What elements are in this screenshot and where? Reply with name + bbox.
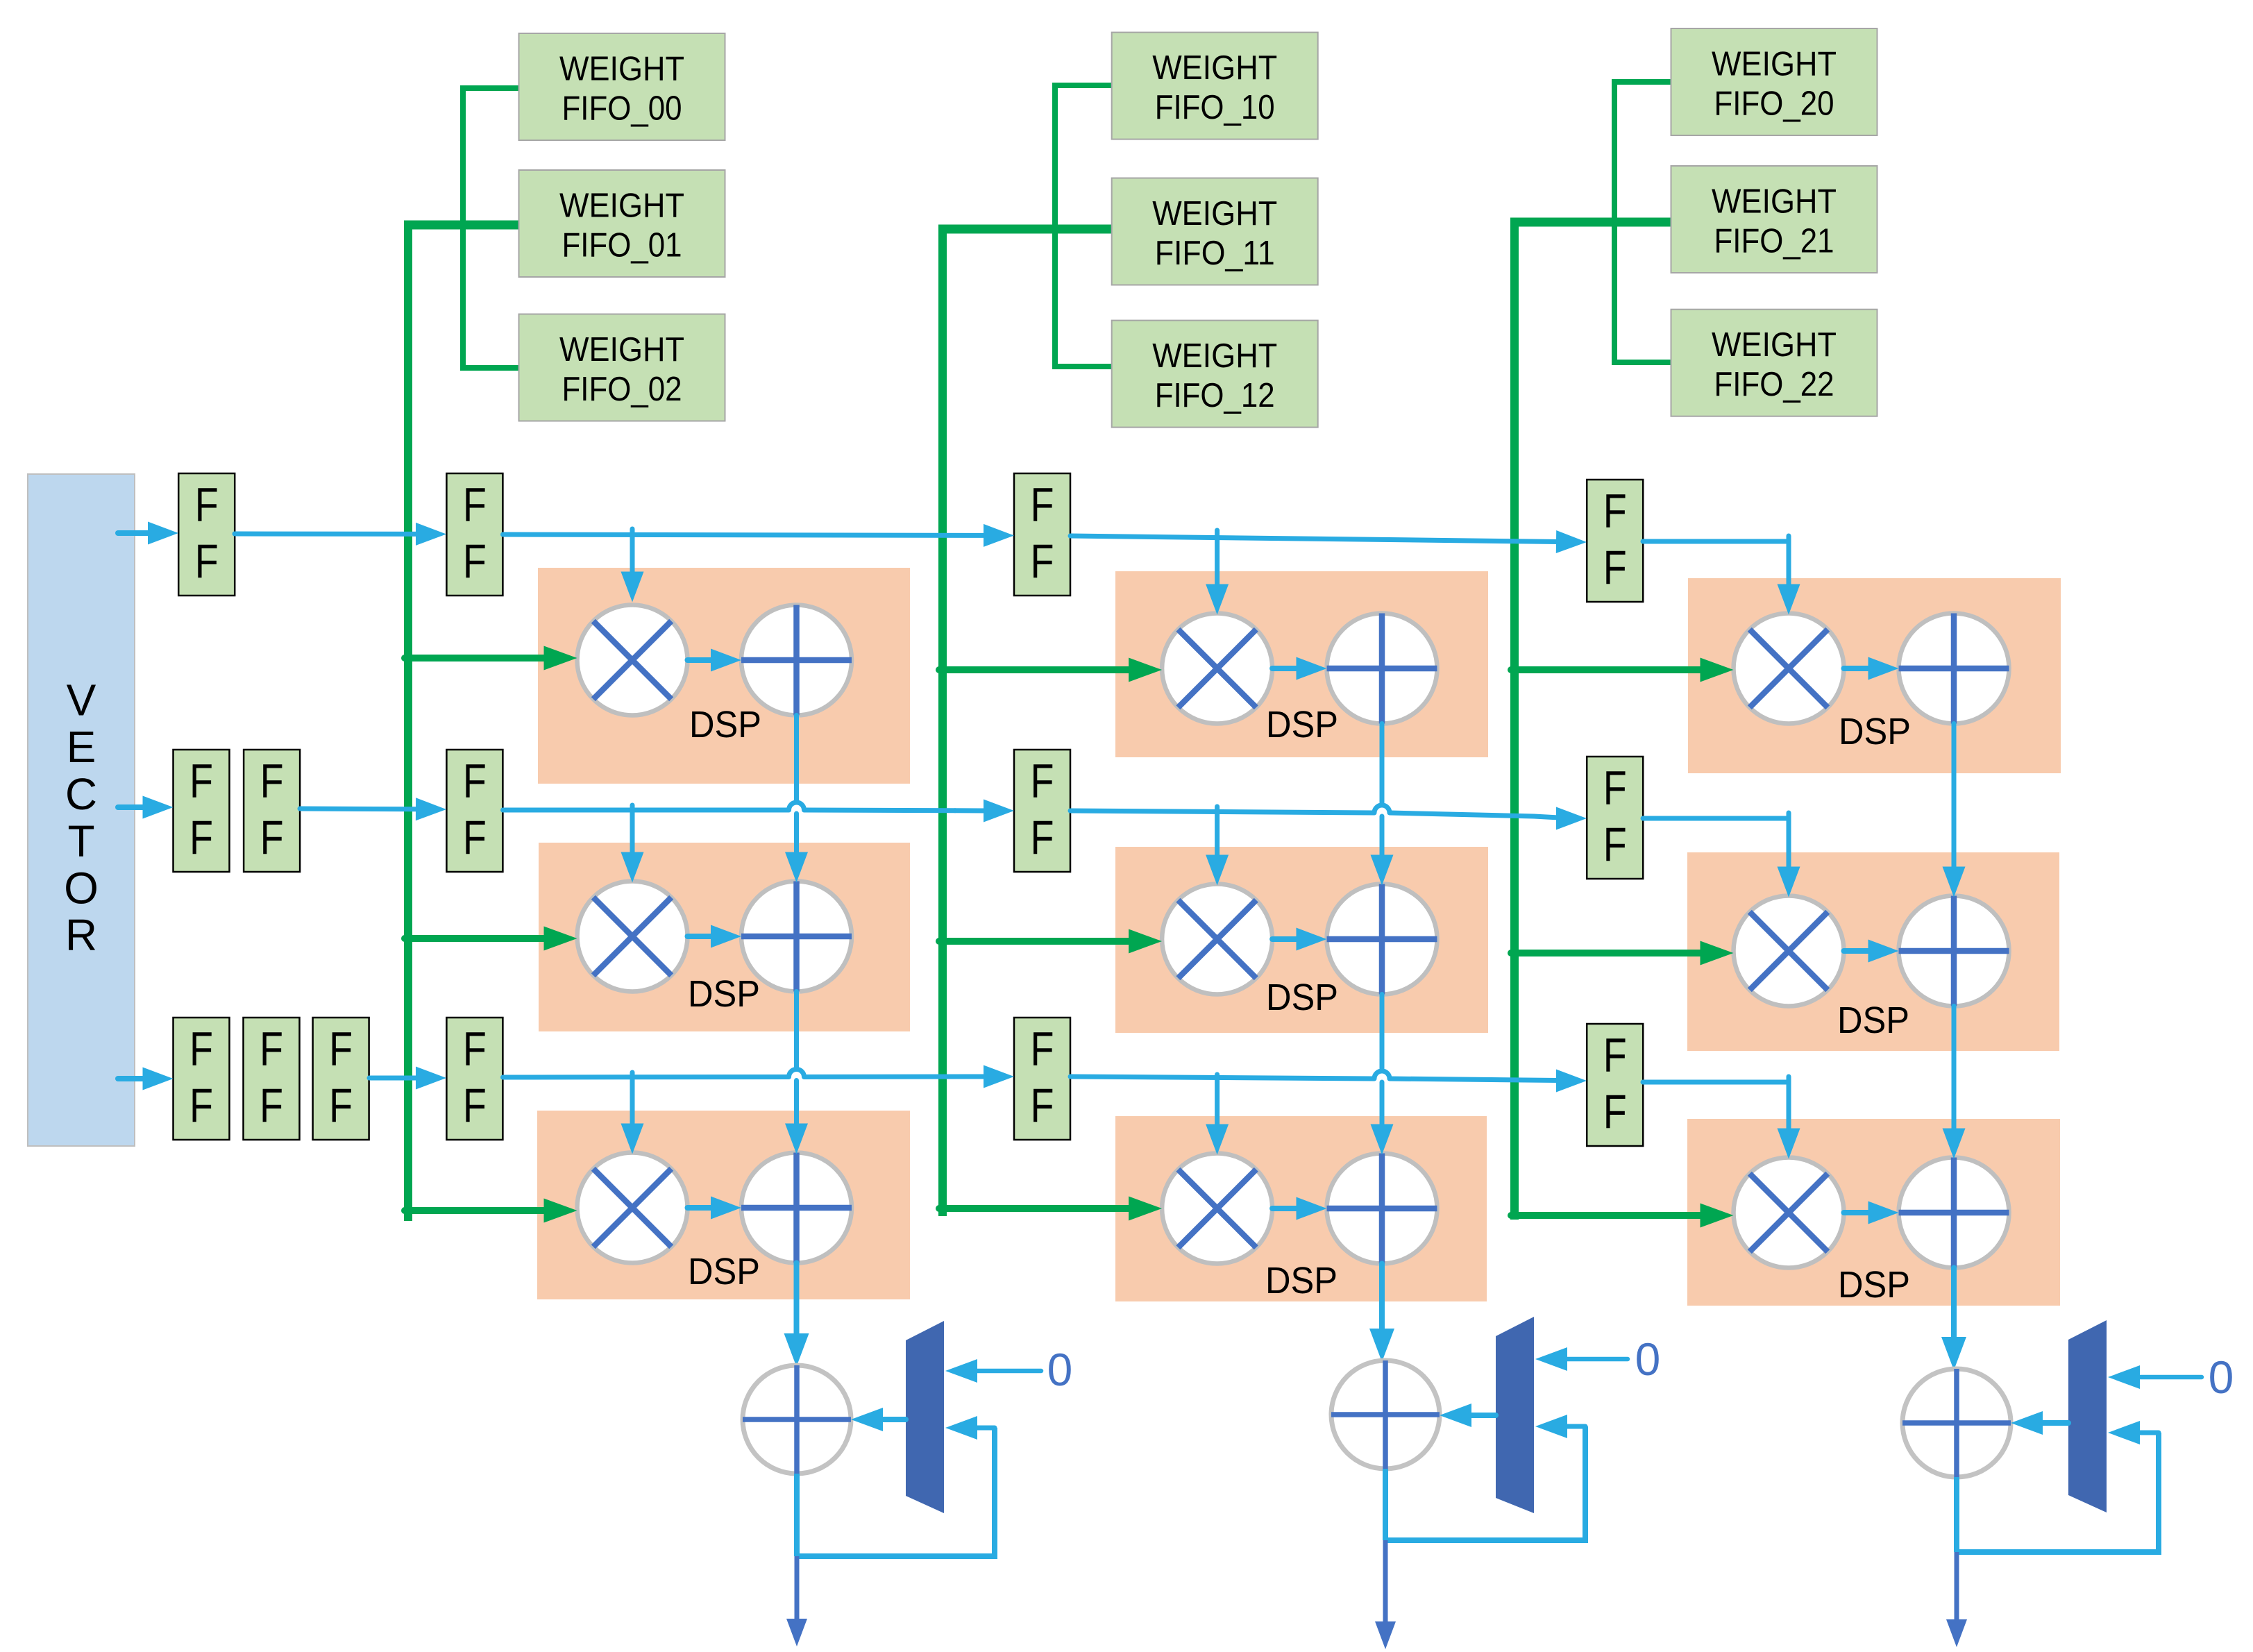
wire: stub to WEIGHT FIFO_22 [1612,360,1674,365]
wire: row3 bus column2 FF to column3 FF (hop at col2 adder chain) [1070,1077,1374,1079]
wire: result output arrow col2 [1383,1540,1388,1624]
wire: accumulator output down col2 [1383,1469,1388,1540]
svg-text:DSP: DSP [1837,1000,1909,1041]
wire: weight trunk 0 vertical [404,221,412,1221]
wire: weight trunk 2 vertical [1510,218,1519,1220]
wire: adder chain row1 to row2 col1 [794,716,799,802]
multiplier circle row2 col1 [577,882,688,992]
svg-text:WEIGHT: WEIGHT [1152,195,1277,233]
multiplier circle row2 col2 [1162,884,1272,995]
svg-text:T: T [67,816,94,866]
flip-flop FF row3 column2 [1014,1018,1070,1140]
wire: stub to WEIGHT FIFO_00 [460,85,522,91]
flip-flop FF row3 column3 [1587,1024,1643,1146]
wire: multiplier to adder arrow row2 col2 [1272,936,1299,942]
WEIGHT FIFO_22 box [1671,310,1877,416]
adder circle row1 col2 [1327,614,1437,724]
svg-text:DSP: DSP [1266,977,1338,1018]
wire: weight arrow trunk2 to multiplier row1 [939,666,1131,673]
svg-text:WEIGHT: WEIGHT [1152,49,1277,87]
svg-text:DSP: DSP [1839,711,1911,752]
wire: feedback loop col1 [797,1428,995,1556]
adder circle row3 col2 [1327,1154,1437,1264]
svg-text:F: F [260,811,284,864]
svg-text:F: F [329,1022,353,1076]
wire: multiplier to adder arrow row3 col3 [1844,1210,1871,1215]
DSP block row3 col1 [537,1111,910,1299]
WEIGHT FIFO_11 box [1112,178,1318,285]
svg-text:F: F [463,1079,487,1132]
svg-text:F: F [1603,484,1627,538]
svg-text:F: F [195,534,219,588]
svg-text:F: F [189,1022,213,1076]
svg-text:R: R [65,910,97,960]
svg-text:WEIGHT: WEIGHT [1712,326,1837,364]
svg-text:O: O [64,863,99,913]
svg-text:WEIGHT: WEIGHT [559,187,684,225]
wire: weight arrow trunk3 to multiplier row3 [1511,1212,1703,1219]
wire: zero input arrow into mux col3 [2137,1375,2202,1380]
svg-text:V: V [67,675,96,725]
flip-flop FF row2 column1 [446,750,503,872]
wire: FF row3 stage3 to column1 FF [369,1076,419,1081]
svg-text:F: F [1031,1022,1054,1076]
flip-flop FF row1 column1 [446,473,503,596]
DSP block row1 col3 [1688,578,2061,773]
multiplier circle row1 col1 [577,605,688,716]
adder circle row1 col3 [1899,614,2009,724]
svg-text:F: F [260,1022,283,1076]
DSP block row2 col1 [539,843,910,1031]
flip-flop FF row1 stage1 [178,473,235,596]
adder circle row2 col2 [1327,884,1437,995]
wire: row3 column3 FF elbow into multiplier col3 [1787,1077,1791,1084]
svg-text:DSP: DSP [689,704,761,745]
wire: row3 bus column1 FF to column2 FF (hop at col1 adder chain) [503,1074,789,1080]
wire: row2 bus column2 FF to column3 FF (hop at col2 adder chain) [1070,811,1374,813]
wire: accumulator output down col1 [794,1474,800,1556]
svg-text:WEIGHT: WEIGHT [1152,337,1277,375]
svg-text:WEIGHT: WEIGHT [559,51,684,88]
wire: multiplier to adder arrow row2 col3 [1844,948,1871,954]
wire: stub to WEIGHT FIFO_10 [1052,83,1115,88]
wire: feedback loop col2 [1385,1426,1585,1540]
flip-flop FF row2 column2 [1014,750,1070,872]
multiplexer mux col3 [2068,1320,2107,1512]
accumulator adder circle col3 [1902,1369,2011,1477]
multiplier circle row2 col3 [1734,896,1844,1006]
wire: multiplier to adder arrow row1 col2 [1272,666,1299,671]
svg-text:E: E [67,722,96,772]
WEIGHT FIFO_02 box [519,314,725,421]
wire: weight column 2 branch vertical [1612,82,1617,362]
svg-text:F: F [463,811,487,864]
flip-flop FF row1 column3 [1587,480,1643,602]
VECTOR input block [28,474,135,1146]
wire: mux output arrow into accumulator col3 [2040,1420,2068,1426]
svg-text:FIFO_12: FIFO_12 [1155,377,1275,414]
adder circle row2 col3 [1899,896,2009,1006]
wire: weight arrow trunk1 to multiplier row3 [405,1207,547,1214]
svg-text:F: F [189,811,213,864]
wire: weight column 1 branch vertical [1052,85,1058,366]
wire: row1 bus column2 FF to column3 FF [1070,536,1559,542]
svg-text:FIFO_01: FIFO_01 [562,227,682,264]
wire: row3 drop into multiplier col1 [630,1072,635,1123]
wire: adder chain row1 to row2 col3 [1952,724,1957,868]
svg-text:F: F [1031,755,1054,808]
wire: row2 column3 FF elbow into multiplier col3 [1787,813,1791,820]
wire: row2 drop into multiplier col2 [1215,807,1220,859]
accumulator adder circle col2 [1331,1360,1440,1469]
wire: FF row1 stage1 to column1 FF [235,532,419,537]
wire: DSP row3 adder to accumulator col1 [794,1263,800,1337]
wire: row1 drop into multiplier col2 [1215,530,1220,587]
multiplier circle row1 col3 [1734,614,1844,724]
wire: weight arrow trunk2 to multiplier row3 [939,1205,1131,1212]
wire: adder chain row1 to row2 col2 [1380,724,1385,805]
multiplexer mux col1 [906,1321,944,1513]
wire: zero input arrow into mux col2 [1564,1357,1628,1362]
DSP block row2 col3 [1687,852,2059,1051]
svg-text:F: F [463,755,487,808]
svg-text:DSP: DSP [688,1251,760,1292]
adder circle row2 col1 [741,882,852,992]
wire: VECTOR to FF row1 arrow [118,530,151,536]
svg-text:FIFO_02: FIFO_02 [562,371,682,408]
wire: multiplier to adder arrow row1 col1 [688,657,714,663]
svg-text:WEIGHT: WEIGHT [1712,183,1837,221]
wire: feedback loop col3 [1957,1433,2159,1552]
wire: multiplier to adder arrow row1 col3 [1844,666,1871,671]
flip-flop FF row3 stage1 [174,1018,230,1140]
wire: stub to WEIGHT FIFO_02 [460,365,522,371]
wire: adder chain row2 to row3 col2 [1380,995,1385,1071]
flip-flop FF row2 column3 [1587,757,1643,879]
WEIGHT FIFO_01 box [519,170,725,277]
wire: multiplier to adder arrow row3 col2 [1272,1206,1299,1211]
wire: mux output arrow into accumulator col1 [880,1417,906,1422]
DSP block row3 col2 [1115,1116,1487,1301]
wire: result output arrow col3 [1955,1552,1959,1622]
wire: row3 drop into multiplier col2 [1215,1074,1220,1124]
wire: DSP row3 adder to accumulator col3 [1951,1268,1957,1340]
wire: weight arrow trunk3 to multiplier row2 [1511,950,1703,956]
svg-text:DSP: DSP [1838,1264,1910,1306]
adder circle row3 col3 [1899,1158,2009,1268]
DSP block row1 col2 [1115,571,1488,757]
wire: FF row2 stage2 to column1 FF [300,807,419,812]
svg-text:0: 0 [1635,1333,1661,1385]
svg-text:DSP: DSP [688,973,760,1015]
multiplier circle row3 col3 [1734,1158,1844,1268]
accumulator adder circle col1 [743,1365,851,1474]
svg-text:F: F [260,1079,283,1132]
svg-text:F: F [463,1022,487,1076]
wire: adder chain row2 to row3 col3 [1952,1006,1957,1130]
DSP block row3 col3 [1687,1119,2060,1306]
wire: VECTOR to FF row3 arrow [118,1076,146,1081]
svg-text:F: F [1031,478,1054,532]
WEIGHT FIFO_21 box [1671,166,1877,273]
svg-text:F: F [1603,761,1627,815]
wire: weight column 0 branch vertical [460,88,466,368]
wire: adder chain row2 to row3 col1 [794,992,799,1070]
wire: stub to WEIGHT FIFO_20 [1612,79,1674,85]
DSP block row1 col1 [538,568,910,784]
wire: multiplier to adder arrow row3 col1 [688,1205,714,1211]
flip-flop FF row3 stage3 [313,1018,369,1140]
wire: weight arrow trunk1 to multiplier row1 [405,655,547,661]
svg-text:F: F [195,478,219,532]
svg-text:F: F [1603,1085,1627,1138]
adder circle row3 col1 [741,1153,852,1263]
WEIGHT FIFO_00 box [519,33,725,140]
svg-text:F: F [1031,1079,1054,1132]
flip-flop FF row2 stage1 [174,750,230,872]
adder circle row1 col1 [741,605,852,716]
svg-text:DSP: DSP [1265,1260,1338,1301]
svg-text:F: F [329,1079,353,1132]
wire: weight arrow trunk2 to multiplier row2 [939,938,1131,945]
flip-flop FF row3 column1 [446,1018,503,1140]
wire: zero input arrow into mux col1 [974,1369,1041,1374]
wire: accumulator output down col3 [1954,1477,1959,1552]
svg-text:F: F [463,478,487,532]
WEIGHT FIFO_20 box [1671,28,1877,135]
svg-text:FIFO_22: FIFO_22 [1714,366,1834,403]
wire: result output arrow col1 [795,1556,800,1621]
wire: VECTOR to FF row2 arrow [118,804,146,810]
svg-text:C: C [65,769,97,819]
svg-text:WEIGHT: WEIGHT [1712,46,1837,83]
flip-flop FF row3 stage2 [244,1018,300,1140]
svg-text:F: F [1031,534,1054,588]
svg-text:F: F [260,755,284,808]
WEIGHT FIFO_10 box [1112,33,1318,140]
wire: weight arrow trunk3 to multiplier row1 [1511,666,1703,673]
svg-text:0: 0 [2209,1351,2234,1403]
svg-text:FIFO_20: FIFO_20 [1714,85,1834,123]
wire: trunk 0 elbow to WEIGHT FIFO_01 [404,221,522,230]
svg-text:F: F [189,755,213,808]
wire: mux output arrow into accumulator col2 [1469,1413,1496,1418]
svg-text:F: F [1031,811,1054,864]
svg-text:F: F [1603,818,1627,871]
svg-text:F: F [1603,541,1627,594]
wire: multiplier to adder arrow row2 col1 [688,934,714,939]
wire: DSP row3 adder to accumulator col2 [1379,1264,1385,1332]
svg-text:WEIGHT: WEIGHT [559,331,684,369]
wire: weight arrow trunk1 to multiplier row2 [405,935,547,942]
svg-text:FIFO_00: FIFO_00 [562,90,682,128]
wire: stub to WEIGHT FIFO_12 [1052,364,1115,369]
multiplier circle row3 col1 [577,1153,688,1263]
svg-text:F: F [463,534,487,588]
wire: row1 bus column1 FF to column2 FF [503,534,987,535]
svg-text:F: F [189,1079,213,1132]
wire: row2 drop into multiplier col1 [630,805,635,857]
multiplier circle row1 col2 [1162,614,1272,724]
flip-flop FF row1 column2 [1014,473,1070,596]
flip-flop FF row2 stage2 [244,750,300,872]
wire: row2 bus column1 FF to column2 FF (hop at col1 adder chain) [503,808,789,813]
WEIGHT FIFO_12 box [1112,321,1318,428]
wire: trunk 1 elbow to WEIGHT FIFO_11 [938,225,1115,234]
multiplier circle row3 col2 [1162,1154,1272,1264]
svg-text:0: 0 [1047,1344,1073,1395]
wire: trunk 2 elbow to WEIGHT FIFO_21 [1510,218,1674,227]
svg-text:FIFO_10: FIFO_10 [1155,89,1275,126]
wire: weight trunk 1 vertical [938,225,947,1216]
svg-text:DSP: DSP [1266,704,1338,745]
multiplexer mux col2 [1496,1317,1534,1513]
svg-text:F: F [1603,1029,1627,1082]
svg-text:FIFO_11: FIFO_11 [1155,235,1275,272]
wire: row1 column3 FF elbow into multiplier col3 [1787,536,1791,543]
DSP block row2 col2 [1115,847,1488,1033]
svg-text:FIFO_21: FIFO_21 [1714,223,1834,260]
wire: row1 drop into multiplier col1 [630,529,635,576]
